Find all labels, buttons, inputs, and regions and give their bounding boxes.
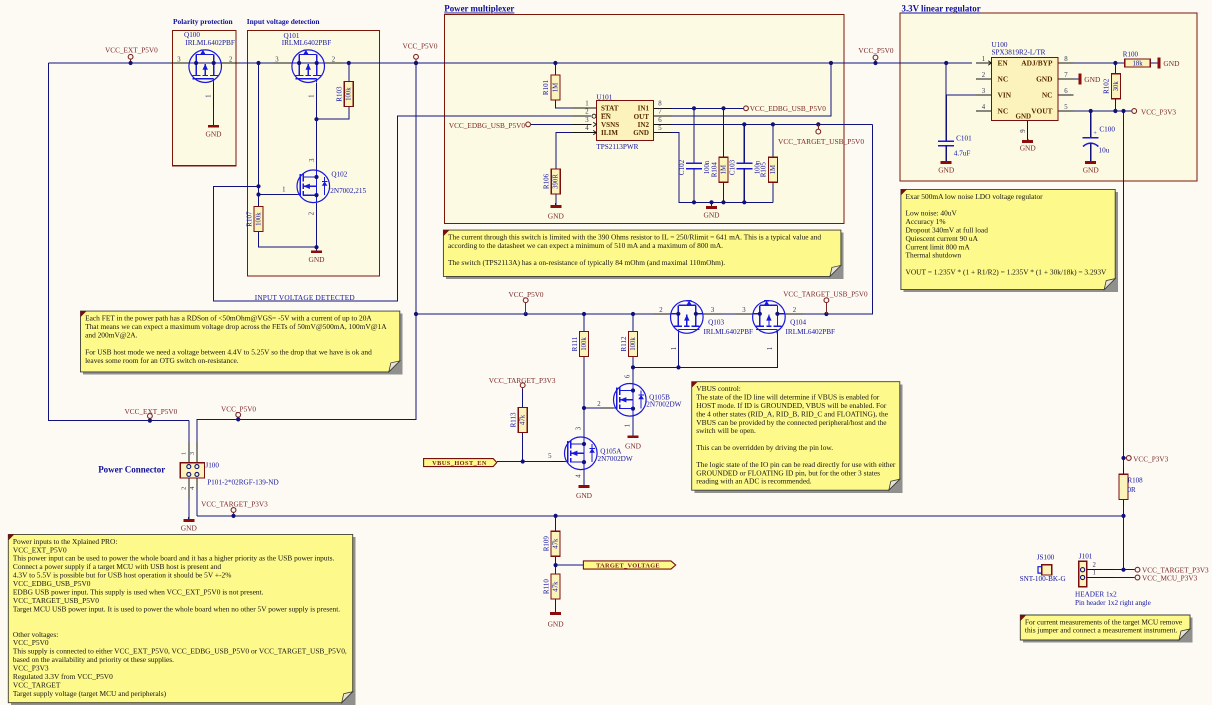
svg-text:R102: R102: [1103, 78, 1111, 94]
wire: Q105A gate pin stub: [552, 461, 564, 463]
svg-text:1: 1: [585, 101, 588, 108]
wire: R109 tap: [555, 516, 557, 531]
svg-text:6: 6: [1064, 88, 1068, 95]
wire: VIN vertical: [945, 63, 947, 141]
note: LDO description: [901, 189, 1118, 292]
ground at C100: [1083, 161, 1100, 175]
svg-text:INPUT VOLTAGE DETECTED: INPUT VOLTAGE DETECTED: [255, 293, 355, 302]
port VCC_P5V0 (mid rail): [509, 291, 544, 314]
wire: Q101 pin1 to Q102 drain: [316, 83, 318, 170]
note: current limit comment: [443, 230, 843, 279]
wire: left vertical VCC_EXT_P5V0 drop: [49, 63, 189, 421]
wire: INPUT VOLTAGE DETECTED net: [213, 116, 591, 301]
ground at Q100 gate: [205, 108, 222, 139]
svg-text:2: 2: [1092, 562, 1096, 569]
svg-text:VCC_TARGET_USB_P5V0: VCC_TARGET_USB_P5V0: [783, 291, 868, 299]
svg-text:Power Connector: Power Connector: [98, 465, 165, 475]
port VCC_P5V0 (top, x416): [402, 43, 437, 66]
node: mid rail junctions: [414, 312, 829, 316]
wire: R110 to GND: [555, 599, 557, 611]
port VCC_P5V0 (bottom): [221, 405, 256, 421]
wire: Q105B source down: [632, 416, 634, 431]
wire: R106 to GND: [555, 194, 557, 203]
wire: ADJ/BYP to R100: [1058, 62, 1125, 64]
resistor R102 30k: [1103, 74, 1121, 99]
svg-text:100k: 100k: [255, 212, 262, 226]
node: Q102 gate junctions on vertical: [256, 184, 260, 196]
svg-text:7: 7: [658, 109, 662, 116]
port VCC_P3V3 (R108 top): [1121, 455, 1168, 463]
svg-text:GND: GND: [205, 130, 222, 139]
svg-text:47k: 47k: [520, 414, 527, 425]
svg-text:VCC_TARGET_P3V3: VCC_TARGET_P3V3: [201, 500, 268, 508]
svg-text:VCC_P5V0: VCC_P5V0: [509, 291, 544, 299]
svg-text:Q104: Q104: [790, 319, 806, 327]
svg-text:2: 2: [332, 57, 336, 64]
wire: J101 pin1 wire navy: [1113, 577, 1134, 579]
wire: R113 bottom: [522, 432, 524, 461]
capacitor C103 100n: [728, 124, 761, 202]
capacitor C100 10u electrolytic: [1083, 111, 1116, 161]
svg-text:J100: J100: [205, 462, 219, 470]
svg-text:VCC_P3V3: VCC_P3V3: [1141, 108, 1176, 116]
ground at Q105B: [625, 431, 642, 450]
svg-text:4: 4: [575, 474, 582, 478]
svg-text:VBUS_HOST_EN: VBUS_HOST_EN: [432, 460, 487, 467]
resistor R105 1M: [760, 157, 778, 182]
svg-text:VCC_EXT_P5V0: VCC_EXT_P5V0: [105, 46, 158, 54]
svg-text:1: 1: [205, 94, 212, 97]
node: decoupling cluster ground rail junctions: [692, 200, 747, 204]
node: bottom rail junctions: [554, 514, 1126, 518]
wire: OUT pin7 to top rail: [654, 63, 832, 116]
port VCC_TARGET_USB_P5V0 (IN2): [778, 124, 864, 146]
region box: 3.3V linear regulator: [900, 4, 1197, 181]
pin stubs (black) U101 right: [654, 108, 672, 132]
svg-text:5: 5: [548, 453, 552, 460]
wire: R104 bottom: [723, 182, 725, 202]
svg-text:R105: R105: [760, 162, 768, 178]
svg-text:GND: GND: [548, 620, 565, 629]
node: ADJ line junction: [1113, 61, 1117, 65]
wire: R107 bottom to Q102 source: [259, 232, 317, 248]
wire: VCC_P5V0 mid rail: [416, 313, 655, 315]
svg-text:and 200mV@2A.: and 200mV@2A.: [85, 330, 138, 339]
svg-text:IN2: IN2: [638, 121, 650, 129]
svg-text:R109: R109: [542, 536, 550, 552]
svg-text:GND: GND: [625, 441, 642, 450]
wire: IN2 line to chip: [655, 123, 873, 125]
svg-text:GND: GND: [633, 129, 649, 137]
wire: R111 tap: [583, 314, 585, 332]
svg-text:2: 2: [308, 211, 315, 215]
svg-text:100k: 100k: [346, 87, 353, 101]
net label INPUT VOLTAGE DETECTED: [255, 293, 355, 302]
wire: J100 pin1 stub: [188, 442, 190, 463]
capacitor C101 labels: [954, 135, 972, 158]
svg-text:3: 3: [585, 117, 589, 124]
svg-text:Power multiplexer: Power multiplexer: [444, 4, 514, 14]
wire: J100 pin4 up: [196, 490, 198, 516]
svg-text:IRLML6402PBF: IRLML6402PBF: [282, 39, 332, 47]
svg-text:VCC_P5V0: VCC_P5V0: [858, 47, 893, 55]
node: R109/R110 divider node: [554, 563, 558, 567]
svg-text:3: 3: [177, 57, 181, 64]
svg-text:R100: R100: [1123, 51, 1139, 59]
svg-text:R104: R104: [710, 162, 718, 178]
note: power inputs description: [8, 534, 355, 705]
wire: R102 top: [1114, 63, 1116, 74]
wire: R102 bottom to VOUT: [1114, 99, 1116, 111]
svg-text:2: 2: [659, 307, 663, 314]
wire: VCC_P5V0 top rail: [49, 62, 972, 64]
svg-text:3: 3: [742, 307, 746, 314]
svg-text:3: 3: [575, 426, 582, 430]
svg-text:NC: NC: [998, 75, 1009, 84]
transistor Q101 IRLML6402PBF: [275, 32, 336, 98]
wire: R105 top: [772, 124, 774, 157]
svg-text:390R: 390R: [553, 174, 560, 189]
svg-text:R107: R107: [245, 211, 253, 227]
svg-text:SNT-100-BK-G: SNT-100-BK-G: [1020, 575, 1066, 583]
svg-text:18k: 18k: [1132, 61, 1143, 68]
svg-text:VCC_EXT_P5V0: VCC_EXT_P5V0: [125, 408, 178, 416]
svg-text:R106: R106: [543, 173, 551, 189]
svg-text:Q100: Q100: [184, 31, 200, 39]
svg-text:EN: EN: [601, 113, 612, 121]
svg-text:1: 1: [767, 347, 774, 350]
pin input chevrons: [593, 61, 991, 135]
svg-text:The switch (TPS2113A) has a on: The switch (TPS2113A) has a on-resistanc…: [448, 258, 725, 267]
svg-text:R103: R103: [336, 86, 344, 102]
svg-text:C100: C100: [1099, 126, 1115, 134]
svg-text:4.7uF: 4.7uF: [954, 149, 971, 157]
capacitor C101 4.7uF: [938, 95, 954, 161]
node: rail taps on VCC_P5V0 top rail: [256, 61, 948, 65]
wire: VOUT line: [1058, 110, 1132, 112]
node: Q101 gate / R103 / Q102 drain junction: [314, 117, 318, 121]
wire: R112 tap: [632, 314, 634, 332]
svg-text:VOUT: VOUT: [1031, 107, 1052, 116]
svg-text:GND: GND: [1020, 144, 1037, 153]
svg-text:100k: 100k: [630, 337, 637, 351]
svg-text:GND: GND: [1083, 165, 1100, 174]
svg-text:2N7002DW: 2N7002DW: [646, 401, 681, 409]
svg-text:VCC_TARGET_USB_P5V0: VCC_TARGET_USB_P5V0: [778, 137, 864, 146]
svg-text:10u: 10u: [1099, 146, 1110, 154]
note: current measurement jumper: [1020, 615, 1192, 643]
port VCC_TARGET_P3V3 (J101): [1134, 567, 1209, 575]
svg-text:IRLML6402PBF: IRLML6402PBF: [786, 328, 836, 336]
node: IN1 line junctions: [692, 106, 726, 110]
svg-text:2: 2: [229, 57, 233, 64]
wire: J101 pin1 wire: [1087, 577, 1114, 579]
svg-text:2: 2: [597, 401, 601, 408]
port VCC_P5V0 (near regulator): [858, 47, 893, 65]
wire: J101 pin2 navy segment: [1113, 569, 1134, 571]
port VCC_MCU_P3V3 (J101): [1134, 574, 1198, 582]
wire: R101 to STAT pin1: [555, 100, 596, 108]
op-amp U100 SPX3819R2-L/TR LDO chip: [982, 41, 1069, 133]
svg-text:according to the datasheet we: according to the datasheet we can expect…: [448, 241, 723, 250]
connector J101 HEADER 1x2: [1075, 553, 1151, 607]
svg-text:3: 3: [711, 307, 715, 314]
svg-text:C101: C101: [956, 135, 972, 143]
wire: R111 to Q105A drain / Q105B gate node: [583, 357, 585, 437]
svg-text:this jumper and connect a meas: this jumper and connect a measurement in…: [1025, 626, 1178, 635]
wire: R101 tap from rail: [554, 63, 556, 75]
resistor R110 47k: [542, 574, 560, 599]
svg-text:5: 5: [1064, 104, 1068, 111]
svg-text:reading with an ADC is recomme: reading with an ADC is recommended.: [696, 477, 812, 486]
svg-text:6: 6: [624, 374, 631, 378]
wire: IN1 pin8 line: [654, 107, 744, 109]
svg-text:Input voltage detection: Input voltage detection: [247, 17, 320, 26]
svg-text:1: 1: [181, 452, 188, 455]
svg-text:switch will be open.: switch will be open.: [696, 426, 756, 435]
wire: J100 pin4 stub: [196, 478, 198, 490]
wire: R104 top: [723, 108, 725, 157]
ground at U100 pin9: [1020, 139, 1037, 153]
pin stubs (black) U100: [976, 63, 1074, 139]
svg-text:Target supply voltage (target: Target supply voltage (target MCU and pe…: [13, 689, 167, 698]
transistor Q102 2N7002,215: [282, 158, 366, 215]
wire: J101 pin2 wire: [1087, 569, 1134, 571]
svg-text:Thermal shutdown: Thermal shutdown: [906, 251, 962, 260]
port VCC_EXT_P5V0 (bottom): [125, 408, 178, 423]
svg-text:47k: 47k: [552, 581, 559, 592]
resistor R107 100k: [245, 207, 263, 232]
svg-text:1: 1: [624, 424, 631, 427]
svg-text:1: 1: [982, 56, 985, 63]
svg-text:ILIM: ILIM: [601, 129, 618, 137]
svg-text:GND: GND: [1163, 59, 1180, 68]
svg-text:GND: GND: [1036, 75, 1052, 84]
svg-text:GND: GND: [938, 165, 955, 174]
wire: R108 to J101 vertical: [1123, 506, 1125, 570]
svg-text:0R: 0R: [1128, 486, 1137, 494]
wire: Q102 source down: [316, 203, 318, 247]
ground at Q105A: [576, 481, 593, 500]
port VCC_TARGET_P3V3 (R113): [489, 377, 556, 389]
svg-text:8: 8: [1064, 56, 1068, 63]
svg-text:3: 3: [275, 57, 279, 64]
svg-text:OUT: OUT: [634, 113, 650, 121]
svg-text:7: 7: [1064, 72, 1068, 79]
resistor R108 0R: [1119, 474, 1143, 499]
svg-text:ADJ/BYP: ADJ/BYP: [1021, 59, 1053, 68]
svg-text:P101-2*02RGF-139-ND: P101-2*02RGF-139-ND: [207, 479, 278, 487]
port VCC_TARGET_P3V3 (bottom rail): [201, 500, 268, 518]
svg-text:Polarity protection: Polarity protection: [173, 17, 233, 26]
svg-text:NC: NC: [998, 107, 1009, 116]
svg-text:EN: EN: [998, 59, 1009, 68]
svg-text:47k: 47k: [552, 538, 559, 549]
wire: Q102 gate line: [259, 194, 298, 196]
pin stubs (black) U101 left: [572, 108, 596, 132]
svg-text:1M: 1M: [770, 165, 777, 174]
svg-text:1: 1: [282, 187, 285, 194]
svg-text:C102: C102: [678, 159, 686, 175]
wire: VIN stub to chip: [946, 94, 991, 96]
resistor R113 47k: [510, 407, 528, 432]
svg-text:Exar 500mA low noise LDO volta: Exar 500mA low noise LDO voltage regulat…: [906, 192, 1044, 201]
svg-text:VCC_P5V0: VCC_P5V0: [221, 405, 256, 413]
node: R111/Q105A/Q105B gate junction: [582, 406, 586, 410]
node: gate rail junctions: [631, 365, 681, 369]
svg-text:3: 3: [982, 88, 986, 95]
svg-text:TARGET_VOLTAGE: TARGET_VOLTAGE: [596, 563, 660, 570]
svg-text:2: 2: [793, 307, 797, 314]
svg-text:R101: R101: [542, 79, 550, 95]
wire: Q105B gate line: [584, 407, 601, 409]
transistor Q100 IRLML6402PBF: [177, 31, 235, 126]
svg-text:+: +: [1093, 130, 1097, 137]
svg-text:VCC_EDBG_USB_P5V0: VCC_EDBG_USB_P5V0: [449, 122, 526, 130]
svg-text:1M: 1M: [720, 165, 727, 174]
svg-text:8: 8: [658, 101, 662, 108]
label Power Connector: [98, 465, 165, 475]
svg-text:1: 1: [671, 347, 678, 350]
wire: bottom VCC_TARGET_P3V3 rail: [197, 515, 1124, 517]
ground at R100: [1150, 58, 1180, 69]
capacitor C102 100n: [678, 108, 711, 202]
wire: VCC_P3V3 long vertical: [1123, 111, 1125, 467]
svg-text:Q102: Q102: [331, 170, 347, 178]
svg-text:VIN: VIN: [998, 91, 1012, 100]
wire: Q103 gate drop: [678, 333, 680, 367]
wire: J100 pin2 stub: [188, 478, 190, 500]
node: VBUS_HOST_EN line junction: [521, 459, 525, 463]
svg-text:R111: R111: [571, 336, 579, 351]
svg-text:IRLML6402PBF: IRLML6402PBF: [185, 39, 235, 47]
resistor R104 1M: [710, 157, 728, 182]
wire: R108 top stub: [1123, 467, 1125, 474]
net flag TARGET_VOLTAGE: [583, 561, 675, 570]
ground at U100 pin7: [1074, 74, 1101, 85]
svg-text:2: 2: [982, 72, 986, 79]
svg-text:GND: GND: [703, 211, 720, 220]
svg-text:3: 3: [309, 158, 316, 162]
svg-text:VSNS: VSNS: [601, 121, 619, 129]
wire: R103 bottom to Q101 gate node: [317, 107, 349, 119]
transistor Q103 IRLML6402PBF: [659, 301, 753, 351]
port VCC_P3V3 (VOUT): [1132, 108, 1177, 116]
svg-text:R112: R112: [620, 336, 628, 351]
svg-text:30k: 30k: [1113, 81, 1120, 92]
wire: VBUS_HOST_EN to Q105A gate: [497, 461, 552, 463]
svg-text:9: 9: [1020, 129, 1027, 133]
svg-text:Target MCU USB power input. It: Target MCU USB power input. It is used t…: [13, 604, 340, 613]
svg-text:3.3V linear regulator: 3.3V linear regulator: [902, 4, 981, 14]
port VCC_EDBG_USB_P5V0 (IN1): [744, 105, 827, 113]
svg-text:2: 2: [585, 109, 589, 116]
svg-text:J101: J101: [1079, 553, 1093, 561]
wire: Q103-Q104 link: [703, 313, 753, 315]
svg-text:2N7002DW: 2N7002DW: [598, 455, 633, 463]
ground at R106: [548, 203, 565, 221]
svg-text:VCC_EDBG_USB_P5V0: VCC_EDBG_USB_P5V0: [750, 105, 827, 113]
wire: R109-R110 node: [555, 556, 557, 574]
wire: VCC_P5V0 drop to lower rail: [197, 63, 416, 442]
svg-text:Pin header 1x2 right angle: Pin header 1x2 right angle: [1075, 599, 1151, 607]
ground at J100 pin2: [181, 517, 198, 532]
resistor R100 18k: [1123, 51, 1151, 68]
resistor R101 1M: [542, 75, 560, 100]
svg-text:2N7002,215: 2N7002,215: [330, 187, 366, 195]
node: VOUT line junctions: [1089, 109, 1126, 113]
resistor R111 100k: [571, 332, 589, 357]
wire: Q105B gate pin stub: [601, 407, 613, 409]
net flag VBUS_HOST_EN: [424, 459, 497, 468]
wire: Q103/Q104 gate rail: [633, 333, 777, 367]
svg-text:HEADER 1x2: HEADER 1x2: [1075, 591, 1117, 599]
svg-text:VOUT = 1.235V * (1 + R1/R2) =: VOUT = 1.235V * (1 + R1/R2) = 1.235V * (…: [906, 268, 1108, 277]
port VCC_EXT_P5V0 (top rail): [105, 46, 158, 65]
svg-text:leaves some room for an OTG sw: leaves some room for an OTG switch on-re…: [85, 356, 239, 365]
svg-text:JS100: JS100: [1037, 554, 1055, 562]
region box: Power multiplexer: [444, 4, 844, 224]
svg-text:GND: GND: [576, 491, 593, 500]
note: FET RDSon comment: [81, 311, 403, 374]
node: IN2 line junctions: [742, 122, 820, 126]
transistor Q105A 2N7002DW: [548, 426, 633, 478]
node: Q102 source / R107 junction: [314, 245, 318, 249]
svg-text:IN1: IN1: [638, 105, 650, 113]
svg-text:VCC_TARGET_P3V3: VCC_TARGET_P3V3: [1142, 567, 1209, 575]
svg-text:GND: GND: [181, 523, 198, 532]
svg-text:This can be overridden by driv: This can be overridden by driving the pi…: [696, 443, 833, 452]
ground at Q102 source: [308, 247, 325, 264]
svg-text:VCC_P5V0: VCC_P5V0: [402, 43, 437, 51]
svg-text:SPX3819R2-L/TR: SPX3819R2-L/TR: [992, 49, 1046, 57]
wire: Q101 gate / R107 vertical from rail: [258, 63, 260, 207]
svg-text:R110: R110: [542, 579, 550, 594]
wire: R112 to gate rail: [632, 357, 634, 384]
port VCC_TARGET_USB_P5V0 (mid rail): [783, 291, 868, 315]
wire: ILIM pin4 to R106: [556, 133, 597, 169]
pin stubs (black) at Q103/Q104: [654, 313, 803, 315]
transistor Q104 IRLML6402PBF: [742, 301, 835, 351]
wire: node to TARGET_VOLTAGE flag: [556, 564, 584, 566]
svg-text:1: 1: [1092, 570, 1095, 577]
svg-text:NC: NC: [1042, 91, 1053, 100]
svg-text:VCC_MCU_P3V3: VCC_MCU_P3V3: [1142, 574, 1198, 582]
svg-text:VCC_TARGET_P3V3: VCC_TARGET_P3V3: [489, 377, 556, 385]
svg-text:STAT: STAT: [601, 105, 619, 113]
node: J101 pin2 junction: [1121, 568, 1125, 572]
svg-text:6: 6: [658, 117, 662, 124]
svg-text:IRLML6402PBF: IRLML6402PBF: [704, 328, 754, 336]
svg-text:1M: 1M: [552, 83, 559, 92]
ground at R110: [548, 611, 565, 629]
resistor R109 47k: [542, 531, 560, 556]
connector J100 P101-2*02RGF-139-ND: [180, 451, 278, 490]
resistor R112 100k: [620, 332, 638, 357]
svg-text:Q103: Q103: [708, 319, 724, 327]
resistor R103 100k: [336, 82, 354, 107]
pin stubs (black) at Q100/Q101: [171, 62, 343, 64]
svg-text:R113: R113: [510, 412, 518, 427]
transistor Q105B 2N7002DW: [597, 374, 681, 427]
ground of decoupling cluster: [703, 202, 720, 219]
wire: R103 top tap: [348, 63, 350, 82]
svg-text:GND: GND: [1016, 112, 1032, 120]
wire: Q105A source down: [583, 470, 585, 481]
svg-text:1: 1: [308, 94, 315, 97]
ground at C101: [938, 161, 955, 175]
svg-text:VCC_P3V3: VCC_P3V3: [1133, 455, 1168, 463]
